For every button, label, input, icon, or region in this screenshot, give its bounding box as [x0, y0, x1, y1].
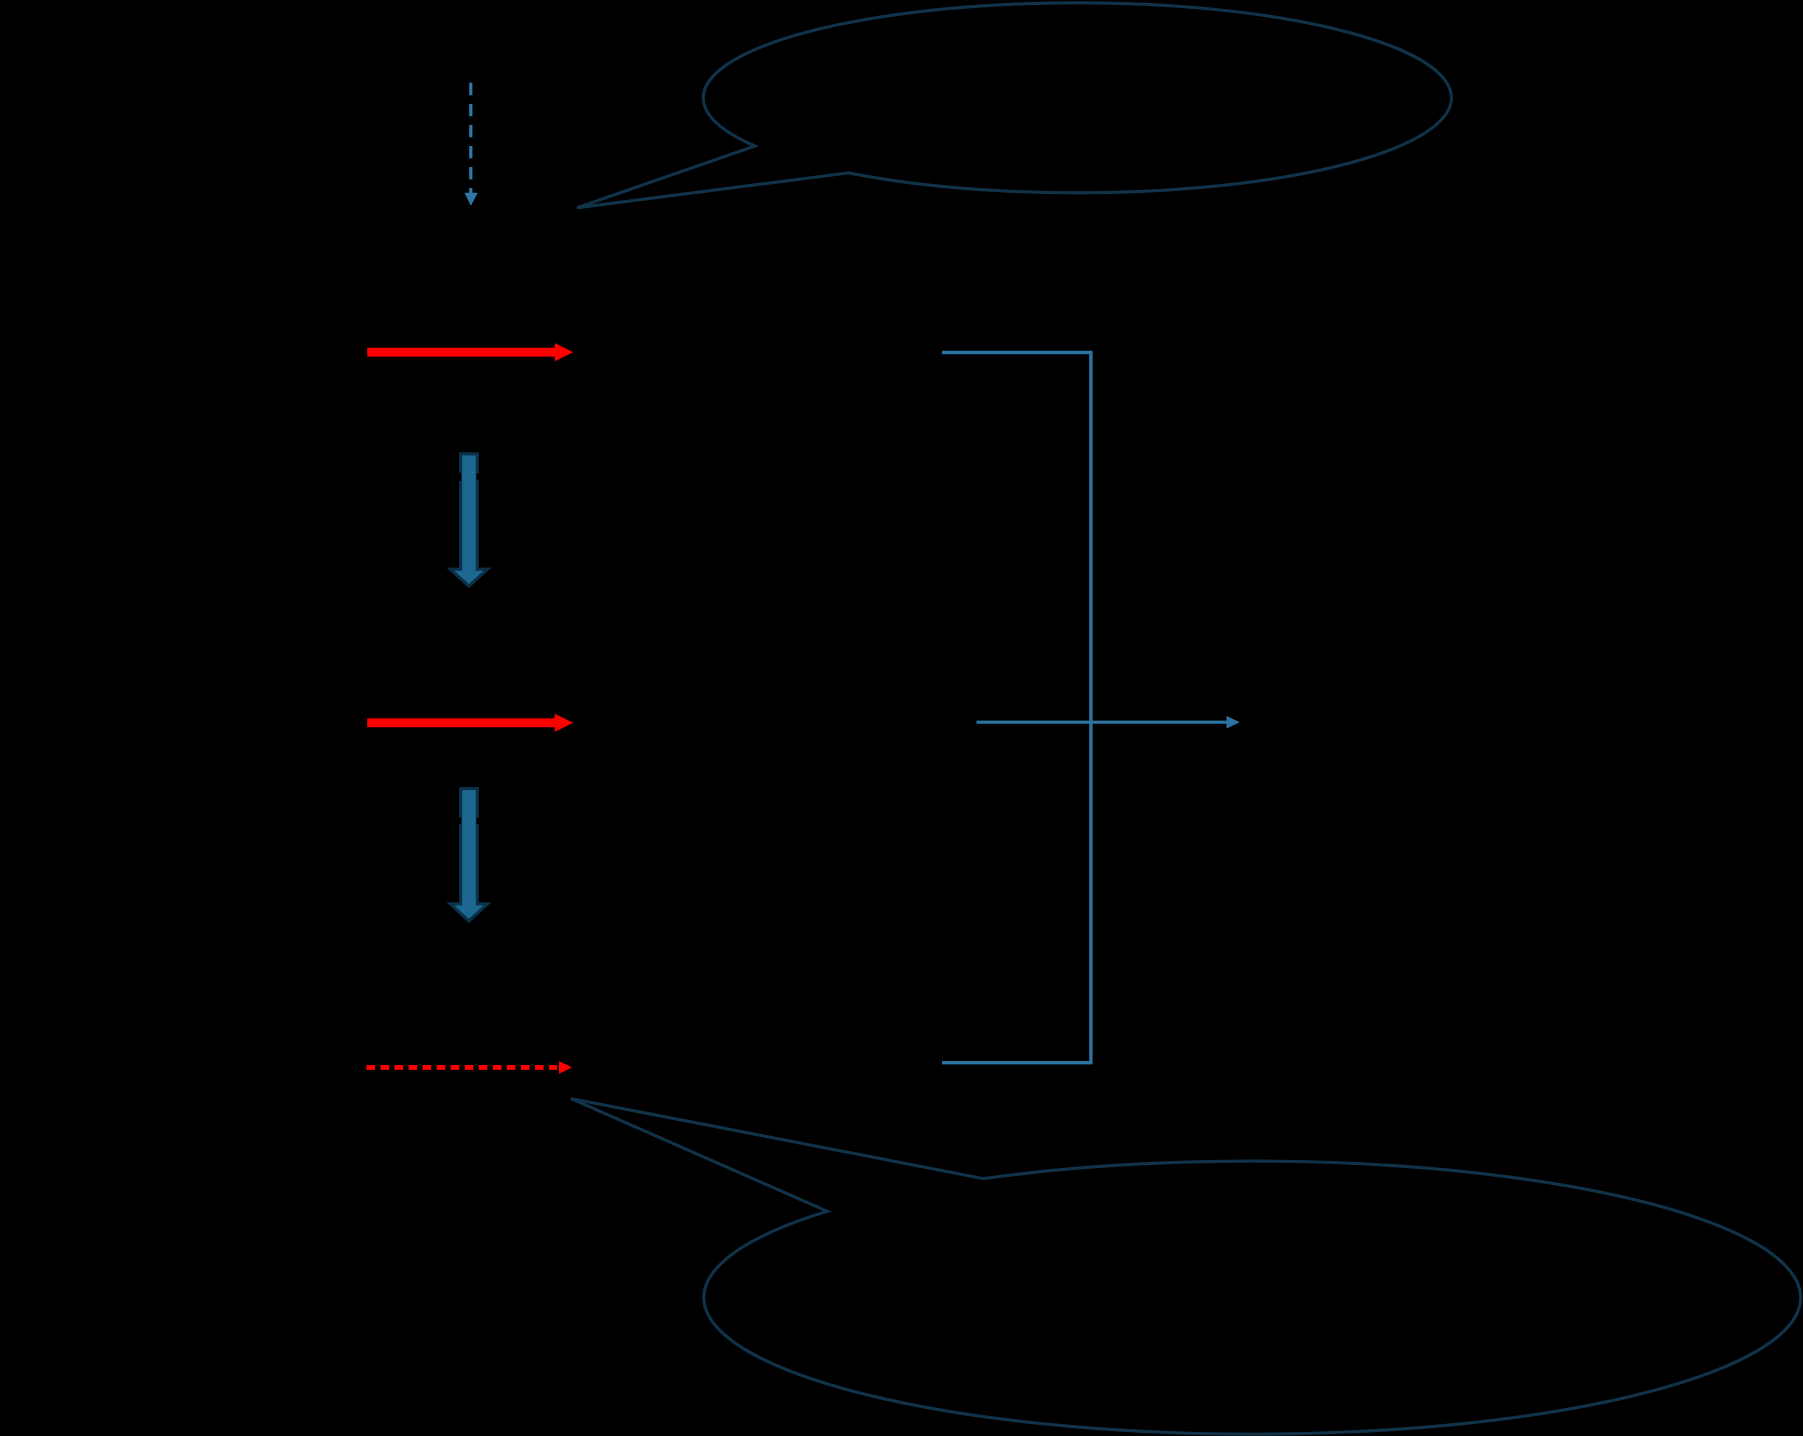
hidden text notch marks on block arrow 1 [458, 473, 461, 481]
red arrow 1 (solid, pointing right) [367, 343, 573, 361]
block arrow 1 (thick blue, pointing down) [450, 454, 487, 586]
bracket (right side, square brace opening left) [942, 353, 1091, 1063]
thin blue arrow through bracket (pointing right) [977, 716, 1240, 729]
dashed blue arrow (top center, pointing down) [464, 83, 477, 206]
hidden text notch marks on block arrow 2 [458, 817, 461, 824]
block arrow 2 (thick blue, pointing down) [450, 789, 487, 921]
dashed red arrow (pointing right) [366, 1061, 572, 1074]
top speech bubble callout (oval with tail to lower-left) [577, 3, 1451, 208]
red arrow 2 (solid, pointing right) [367, 714, 573, 732]
bottom speech bubble callout (oval with tail to upper-left) [571, 1099, 1801, 1434]
